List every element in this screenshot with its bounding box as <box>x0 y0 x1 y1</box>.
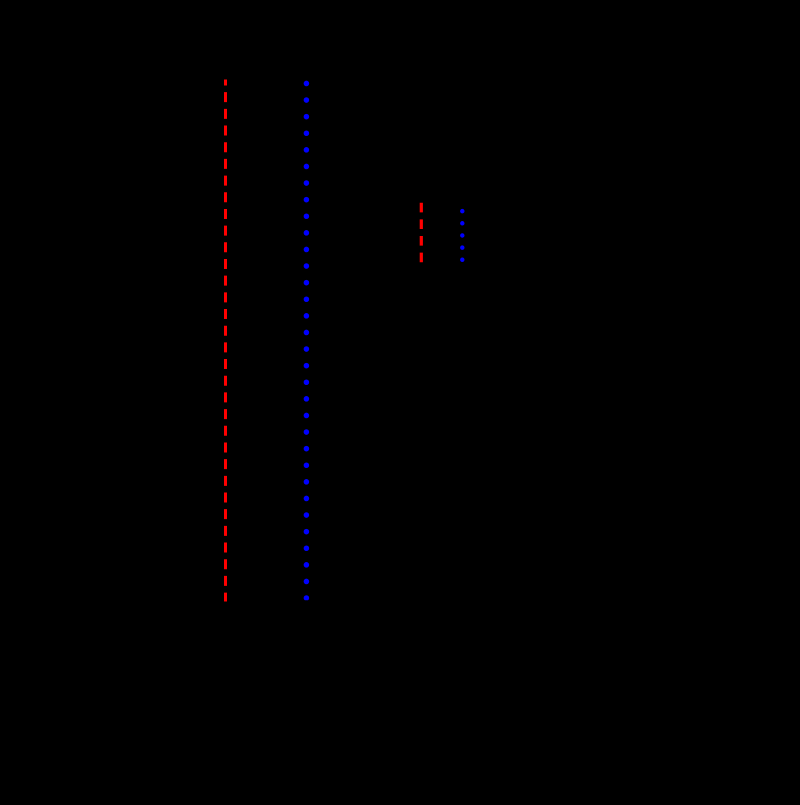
red dashed vline (main curve 1) <box>224 80 227 602</box>
legend key: blue dotted sample <box>460 211 464 260</box>
legend key: red dashed sample <box>420 203 423 262</box>
